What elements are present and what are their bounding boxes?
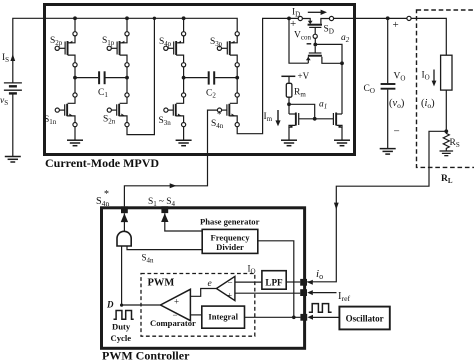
node dot oscillator line [292,316,296,320]
wire: SD gate node to a2 drain rail [315,44,342,114]
svg-text:−: − [228,278,233,288]
transistor S3p [217,32,239,67]
comparator (PWM) [190,314,201,316]
node dot RS top [444,129,448,133]
transistor S3n [164,93,186,127]
svg-text:LPF: LPF [265,278,283,288]
svg-text:PWM Controller: PWM Controller [102,349,190,361]
svg-text:+V: +V [298,71,310,81]
node square Iref [300,289,307,296]
svg-text:+: + [290,18,296,30]
node dot leg1 mid [73,76,77,80]
node square S1~S4 [161,206,168,213]
node dot Vcon gate [313,43,317,47]
svg-text:Duty: Duty [112,322,131,332]
leg 1 wires [74,18,76,139]
node square io [300,279,307,286]
box: Integral [202,306,245,328]
wire: current sense feedback [307,131,446,281]
node dot Rm bottom [287,102,291,106]
output terminal circle [407,16,411,20]
node dot output at CO [386,16,390,20]
wire: oscillator line to integral [245,316,301,318]
wire: oscillator output [313,316,339,318]
svg-text:Divider: Divider [216,242,244,252]
svg-text:PWM: PWM [148,278,175,289]
node square oscillator input [300,314,307,321]
feedback arrow down [334,203,339,210]
svg-text:*: * [217,110,222,120]
wire: input rail from source to leg4 corner [13,18,237,82]
capacitor C2 [184,77,238,79]
svg-text:Frequency: Frequency [211,232,251,242]
svg-text:*: * [104,189,109,200]
transistor S2n [107,93,129,127]
dashed load box [417,10,474,167]
+V supply bar [281,75,295,77]
node dot a2 drain [340,61,344,65]
capacitor C1 [75,77,127,79]
current IS arrow [10,54,15,61]
leg 3 wires [183,18,185,139]
current IO arrow [433,70,435,82]
box: Frequency Divider [202,229,258,253]
ground (a1 right) [334,140,350,146]
box: LPF [262,271,286,290]
transistor a1 left (diode connected) [289,113,295,115]
resistor Rm [286,83,292,97]
AND gate [117,231,131,246]
current Im arrow [277,110,279,121]
svg-text:+: + [393,19,399,31]
svg-text:S1 ~ S4: S1 ~ S4 [148,197,176,208]
svg-text:e: e [208,279,212,289]
node dot leg2 mid [125,76,129,80]
current ID arrow [308,11,322,13]
svg-text:Phase generator: Phase generator [200,217,260,227]
ground (leg3) [176,140,192,146]
svg-text:(vo): (vo) [389,98,405,110]
transistor a2 [307,57,309,64]
ground (RS) [440,151,454,156]
node dot leg4 mid [235,76,239,80]
node dot gate link [313,117,317,121]
svg-text:+: + [174,297,179,307]
svg-text:Cycle: Cycle [111,333,132,343]
svg-text:D: D [106,300,114,310]
svg-text:Oscillator: Oscillator [346,314,384,324]
wire: oscillator to divider [258,241,294,317]
transistor a1 right [337,113,342,115]
oscillator pulse glyph [309,304,332,313]
box: Oscillator [339,307,389,330]
node dot leg3 mid [182,76,186,80]
transistor S4p [164,32,186,67]
ground (CO) [380,149,396,155]
minus sign Vcon [307,43,312,45]
svg-text:+: + [227,290,232,300]
svg-text:−: − [394,126,400,138]
box: Current-Mode MPVD [45,5,355,155]
wire: AND left input from comparator [121,246,123,305]
comparator e (error amp) [235,281,262,283]
leg 4 wires [237,18,298,133]
ground (leg1) [67,140,83,146]
arrow up into MPVD (S4n*) [123,213,125,231]
wire: SD gate to Vcon node [314,38,316,44]
battery VS plates [4,82,22,84]
ground (a1 left) [281,140,297,146]
wire: Iref [313,292,337,294]
svg-text:−: − [173,310,178,320]
resistor RS [443,131,449,150]
box: PWM Controller [102,208,305,348]
resistor RL (load) [441,55,452,90]
svg-text:Current-Mode MPVD: Current-Mode MPVD [45,156,159,170]
svg-text:Integral: Integral [208,312,238,322]
wire: mirror gate link [289,104,333,119]
arrow up (S1~S4) [165,213,202,231]
transistor S2p [55,32,77,67]
wire: output rail SD to load [334,18,447,55]
leg 2 wires [127,18,154,134]
node dots on input rail [73,16,77,20]
wire: Vcon branch left side [289,18,308,63]
transistor S1p [107,32,129,67]
transistor S1n [55,93,77,127]
wire: AND right input from divider [127,246,202,250]
transistor S4n* [217,93,239,127]
wire: battery negative to ground [12,94,14,157]
node dot Vcon rail tap [287,17,291,21]
duty cycle pulse glyph [114,311,134,320]
dashed box PWM [141,274,255,337]
switch SD [298,16,302,20]
node square S4n* [121,206,128,213]
wire: S4n* gate drive [124,110,217,206]
ground (source) [5,157,21,163]
capacitor CO branch [387,18,389,148]
